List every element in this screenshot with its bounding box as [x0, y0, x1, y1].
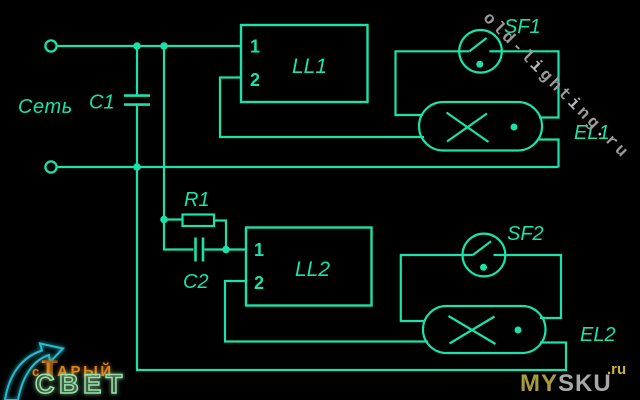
svg-text:2: 2	[254, 273, 264, 293]
ballast LL2	[246, 228, 372, 306]
svg-text:LL2: LL2	[295, 258, 330, 281]
capacitor C2	[164, 220, 194, 250]
svg-text:C2: C2	[183, 271, 209, 293]
wire: SF1 to EL1 upper-right pin	[502, 51, 559, 117]
resistor R1	[164, 218, 183, 220]
svg-text:EL2: EL2	[580, 324, 616, 346]
svg-text:C1: C1	[89, 92, 115, 114]
terminal X2 (mains bottom)	[45, 161, 56, 172]
wire: LL1 pin 2 to EL1 lower-left pin	[220, 78, 424, 138]
node: junction R1/C2 right	[222, 246, 230, 254]
terminal X1 (mains top)	[45, 40, 56, 51]
logo Старый Свет	[5, 344, 127, 400]
wire: EL2 upper-left pin to SF2	[401, 255, 473, 321]
watermark MYSKU.ru	[520, 361, 626, 397]
wire: live branch down to R1/C2	[163, 46, 165, 220]
svg-text:2: 2	[250, 70, 260, 90]
wire: top mains line to LL1 pin 1	[58, 45, 241, 47]
wire: neutral drop to bottom bus and up to EL2 lower-right pin	[137, 167, 566, 370]
lamp EL1	[419, 102, 542, 151]
svg-text:.ru: .ru	[607, 361, 626, 378]
capacitor C1	[136, 46, 138, 95]
node: junction branch to R1	[160, 42, 168, 50]
wire: EL1 upper-left pin to SF1	[396, 51, 470, 115]
wire: EL1 lower-right pin to neutral	[539, 140, 559, 168]
starter SF1	[459, 30, 502, 73]
ballast LL1	[241, 25, 368, 102]
node: junction C1 / top wire	[133, 42, 141, 50]
node: junction C1 bottom / neutral	[133, 163, 141, 171]
svg-text:1: 1	[250, 37, 260, 57]
wire: SF2 to EL2 upper-right pin	[505, 255, 561, 318]
svg-text:LL1: LL1	[292, 55, 327, 78]
wire: LL2 pin 2 to EL2 lower-left pin	[225, 281, 428, 342]
starter SF2	[463, 234, 506, 277]
svg-text:Сеть: Сеть	[18, 96, 73, 118]
svg-text:R1: R1	[184, 189, 210, 211]
svg-text:MYSKU: MYSKU	[520, 370, 612, 397]
wire: to LL2 pin 1	[226, 248, 246, 250]
svg-text:1: 1	[254, 240, 264, 260]
svg-text:SF2: SF2	[507, 223, 544, 245]
svg-text:old-lighting.ru: old-lighting.ru	[478, 9, 633, 164]
svg-text:СВЕТ: СВЕТ	[35, 369, 127, 399]
node: junction at R1 left	[160, 216, 168, 224]
lamp EL2	[423, 306, 546, 353]
wire: bottom mains line	[58, 166, 559, 168]
